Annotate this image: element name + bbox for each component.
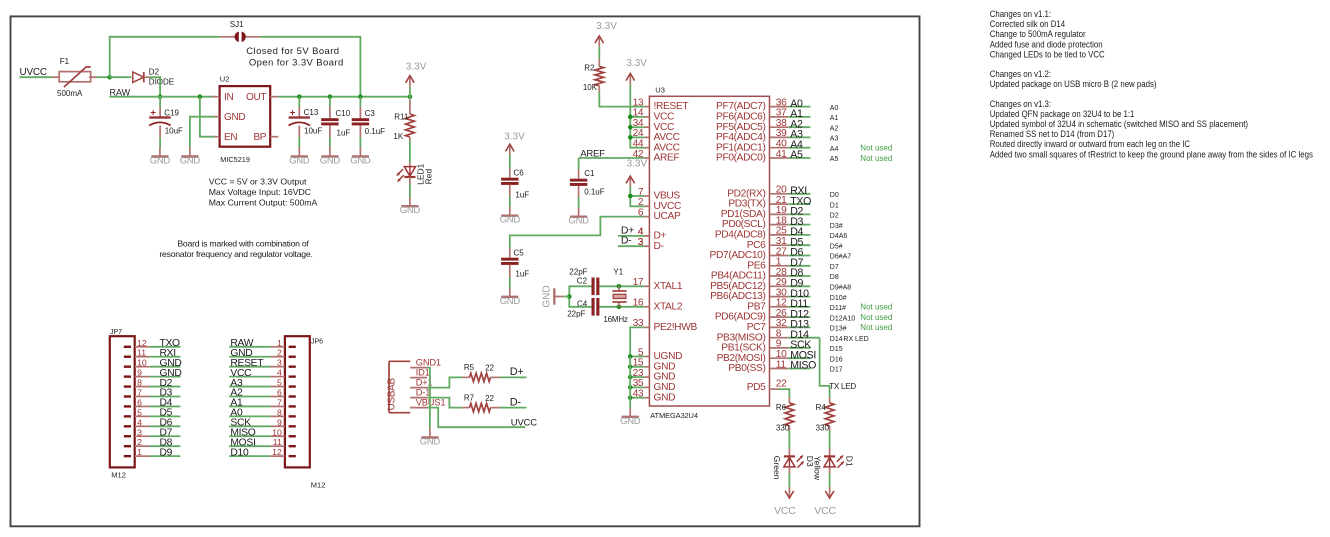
wire <box>509 155 511 168</box>
U3 pin 30 PB6(ADC13) net D10 <box>710 287 847 302</box>
svg-text:22pF: 22pF <box>567 310 585 319</box>
svg-text:VCC: VCC <box>774 505 796 517</box>
capacitor C1 <box>570 179 587 186</box>
svg-text:D10: D10 <box>230 447 249 458</box>
JP6 pin 8 A0 <box>229 407 296 418</box>
wire <box>829 431 831 449</box>
label R6 <box>776 403 787 412</box>
svg-text:7: 7 <box>137 388 142 398</box>
svg-text:D-: D- <box>621 235 632 247</box>
svg-text:Y1: Y1 <box>613 268 623 277</box>
pin stub <box>462 376 469 378</box>
connector JP7 <box>110 329 135 480</box>
resistor R11 <box>406 114 415 137</box>
crystal Y1 <box>603 268 628 325</box>
pin stub <box>329 125 331 137</box>
label 10uF <box>165 127 183 136</box>
label 0.1uF <box>365 127 386 136</box>
svg-text:GND: GND <box>224 112 245 123</box>
wire <box>329 137 331 147</box>
junction <box>358 94 363 99</box>
pin stub <box>159 126 161 138</box>
svg-text:+: + <box>290 107 296 118</box>
junction <box>628 194 633 199</box>
svg-text:330: 330 <box>816 423 830 432</box>
svg-text:D9#A8: D9#A8 <box>830 285 852 292</box>
pin stub <box>578 186 580 197</box>
wire <box>630 366 644 368</box>
U3 pin 40 PF1(ADC1) net A4 <box>716 139 892 154</box>
junction <box>628 135 633 140</box>
svg-text:AREF: AREF <box>654 153 680 164</box>
label 0.1uF <box>584 187 605 196</box>
svg-text:5: 5 <box>277 378 282 388</box>
svg-text:R11: R11 <box>394 113 409 122</box>
svg-text:330: 330 <box>776 423 790 432</box>
ground <box>568 208 589 227</box>
JP6 pin 12 D10 <box>229 447 296 458</box>
svg-text:PD5: PD5 <box>747 382 766 393</box>
label 1uF <box>515 191 529 200</box>
svg-text:11: 11 <box>273 437 282 447</box>
U3 pin 27 PD7(ADC10) net D6 <box>710 246 852 261</box>
U3 pin 2 UVCC <box>638 197 681 212</box>
svg-text:9: 9 <box>137 368 142 378</box>
svg-text:D0: D0 <box>830 192 839 199</box>
svg-text:ATMEGA32U4: ATMEGA32U4 <box>650 411 698 420</box>
resistor R6 <box>785 403 794 426</box>
svg-text:D10#: D10# <box>830 295 847 302</box>
svg-text:Red: Red <box>424 169 434 185</box>
U3 pin 25 PD4(ADC8) net D4 <box>715 226 848 241</box>
label R5 <box>464 363 475 372</box>
wire <box>779 389 789 397</box>
svg-text:2: 2 <box>137 437 142 447</box>
net label D- <box>510 396 522 408</box>
USB pin VBUS1 <box>410 398 445 408</box>
wire <box>829 474 831 489</box>
pin stub <box>578 170 580 179</box>
svg-text:Closed for 5V Board: Closed for 5V Board <box>246 46 339 57</box>
label C1 <box>584 169 595 178</box>
label R11 <box>394 113 409 122</box>
net label UVCC <box>511 416 537 427</box>
svg-text:GND: GND <box>541 285 552 307</box>
svg-text:D4A6: D4A6 <box>830 233 848 240</box>
svg-text:D1: D1 <box>845 456 855 467</box>
solder jumper SJ1 <box>220 20 259 42</box>
svg-text:Not used: Not used <box>860 144 892 153</box>
net label RAW <box>110 87 131 97</box>
svg-text:16MHz: 16MHz <box>603 315 628 324</box>
svg-text:GND: GND <box>500 215 521 226</box>
net label D+ <box>510 366 524 378</box>
ground <box>420 428 441 447</box>
svg-text:GND1: GND1 <box>416 358 441 368</box>
pin stub <box>462 407 469 409</box>
U3 pin 7 VBUS <box>638 187 680 202</box>
capacitor C6 <box>501 178 518 185</box>
pin stub U2.EN <box>212 136 220 138</box>
label R7 <box>464 393 475 402</box>
svg-text:3.3V: 3.3V <box>627 158 648 169</box>
capacitor C13 <box>289 107 310 125</box>
label 1uF <box>337 128 351 137</box>
JP7 pin 6 D4 <box>124 397 181 408</box>
svg-text:8: 8 <box>277 407 282 417</box>
svg-text:C13: C13 <box>304 108 319 117</box>
junction <box>628 115 633 120</box>
U3 pin 22 PD5 <box>747 378 787 392</box>
svg-text:1uF: 1uF <box>337 128 351 137</box>
svg-text:A4: A4 <box>830 146 839 153</box>
pin stub <box>409 100 411 114</box>
wire <box>788 431 790 449</box>
pin stub U2.GND <box>212 116 220 118</box>
svg-text:D11#: D11# <box>830 305 846 312</box>
svg-text:A1: A1 <box>830 115 839 122</box>
USB pin D-1 <box>410 388 430 398</box>
U3 pin 13 !RESET <box>633 97 689 112</box>
svg-text:Max Current Output: 500mA: Max Current Output: 500mA <box>209 198 318 208</box>
U3 pin 1 PE6 net D7 <box>747 257 839 272</box>
svg-text:UVCC: UVCC <box>511 416 537 427</box>
svg-text:Board is marked with combinati: Board is marked with combination of <box>177 238 309 248</box>
svg-text:SJ1: SJ1 <box>230 20 244 29</box>
label 22 <box>485 394 494 403</box>
svg-text:GND: GND <box>350 155 371 166</box>
wire <box>630 116 644 118</box>
svg-text:R4: R4 <box>816 403 827 412</box>
U3 pin 23 GND <box>633 368 676 383</box>
svg-text:MIC5219: MIC5219 <box>220 155 250 164</box>
wire <box>409 87 411 100</box>
svg-text:TX LED: TX LED <box>829 382 856 391</box>
svg-text:10: 10 <box>272 427 282 437</box>
wire <box>427 408 525 428</box>
svg-text:DIODE: DIODE <box>149 77 174 86</box>
label 10uF <box>304 127 322 136</box>
wire <box>569 286 591 307</box>
JP7 pin 1 D9 <box>124 447 181 458</box>
note regulator <box>209 177 318 208</box>
wire <box>110 37 221 77</box>
capacitor C10 <box>321 118 338 125</box>
svg-text:22pF: 22pF <box>569 267 587 276</box>
pin stub <box>509 169 511 178</box>
net label AREF <box>580 148 605 159</box>
wire <box>500 407 527 409</box>
svg-text:D-: D- <box>654 241 664 252</box>
svg-text:10uF: 10uF <box>165 127 183 136</box>
svg-text:USBAB: USBAB <box>386 377 397 410</box>
USB pin D+1 <box>410 378 432 388</box>
JP6 pin 7 A1 <box>229 397 296 408</box>
svg-text:A0: A0 <box>830 105 839 112</box>
svg-text:6: 6 <box>137 397 142 407</box>
JP6 pin 9 SCK <box>229 417 296 428</box>
svg-text:A5: A5 <box>830 156 839 163</box>
svg-text:MISO: MISO <box>790 360 816 372</box>
svg-text:D2: D2 <box>830 213 839 220</box>
wire <box>618 245 644 247</box>
svg-text:D6#A7: D6#A7 <box>830 254 852 261</box>
pin stub <box>491 376 500 378</box>
wire <box>563 296 569 298</box>
pin stub <box>359 125 361 137</box>
label C3 <box>365 109 376 118</box>
note closed for 5V <box>246 46 339 57</box>
pin stub <box>359 107 361 118</box>
svg-text:R5: R5 <box>464 363 475 372</box>
ground (rotated) <box>541 285 563 307</box>
svg-text:GND: GND <box>400 205 421 216</box>
pin stub <box>298 126 300 138</box>
pin stub <box>144 76 150 78</box>
power 3.3V <box>595 21 617 47</box>
svg-text:Added two small squares of tRe: Added two small squares of tRestrict to … <box>990 149 1314 159</box>
USB connector USBAB body <box>386 361 410 412</box>
svg-text:Changes on v1.3:: Changes on v1.3: <box>990 99 1051 109</box>
wire <box>630 84 644 147</box>
U3 pin 42 AREF <box>633 149 680 164</box>
wire <box>500 376 527 378</box>
svg-text:Not used: Not used <box>860 154 892 163</box>
wire <box>630 327 644 356</box>
svg-text:12: 12 <box>272 447 282 457</box>
svg-text:Not used: Not used <box>860 303 892 312</box>
JP7 pin 9 GND <box>124 368 182 379</box>
label 330 <box>776 423 790 432</box>
ground <box>150 147 171 166</box>
U3 pin 24 AVCC <box>633 128 680 143</box>
U3 pin 43 GND <box>633 389 676 404</box>
svg-text:Open for 3.3V Board: Open for 3.3V Board <box>249 57 344 68</box>
junction <box>328 94 333 99</box>
svg-text:2: 2 <box>277 348 282 358</box>
svg-text:D17: D17 <box>830 367 843 374</box>
svg-text:3: 3 <box>137 427 142 437</box>
JP6 pin 6 A2 <box>229 388 296 399</box>
label 22 <box>485 364 494 373</box>
wire <box>278 96 410 98</box>
junction <box>567 294 572 299</box>
svg-text:4: 4 <box>277 368 282 378</box>
pin stub <box>409 163 411 167</box>
svg-text:Routed directly inward or outw: Routed directly inward or outward from e… <box>990 139 1191 149</box>
label C6 <box>514 168 525 177</box>
svg-text:Updated package on USB micro B: Updated package on USB micro B (2 new pa… <box>990 79 1157 89</box>
U3 pin 17 XTAL1 <box>633 277 683 292</box>
svg-text:A2: A2 <box>830 125 839 132</box>
svg-text:D2: D2 <box>149 67 160 76</box>
svg-text:10K: 10K <box>583 83 598 92</box>
pin stub <box>491 407 500 409</box>
ground <box>289 147 310 166</box>
svg-text:C19: C19 <box>164 108 179 117</box>
junction <box>408 94 413 99</box>
svg-text:GND: GND <box>420 437 441 448</box>
power 3.3V <box>406 62 427 87</box>
JP6 pin 10 MISO <box>229 427 296 438</box>
svg-text:D14: D14 <box>830 336 843 343</box>
svg-text:22: 22 <box>485 394 494 403</box>
wire <box>630 356 644 358</box>
svg-text:Updated symbol of 32U4 in sche: Updated symbol of 32U4 in schematic (swi… <box>990 119 1248 129</box>
U3 pin 44 AVCC <box>633 139 680 154</box>
U3 pin 36 PF7(ADC7) net A0 <box>716 97 838 112</box>
ground <box>320 147 341 166</box>
JP6 pin 11 MOSI <box>229 437 296 448</box>
svg-text:6: 6 <box>277 388 282 398</box>
wire <box>359 97 361 107</box>
svg-text:22: 22 <box>776 378 787 389</box>
U3 pin 19 PD1(SDA) net D2 <box>721 205 839 220</box>
svg-text:11: 11 <box>776 359 787 370</box>
JP6 pin 1 RAW <box>229 338 296 349</box>
svg-text:PE2!HWB: PE2!HWB <box>654 322 698 333</box>
svg-text:VCC = 5V or 3.3V Output: VCC = 5V or 3.3V Output <box>209 177 307 187</box>
svg-text:PF0(ADC0): PF0(ADC0) <box>716 153 766 164</box>
U3 pin 6 UCAP <box>638 207 681 222</box>
svg-text:11: 11 <box>137 348 146 358</box>
fuse F1 <box>57 57 91 98</box>
svg-text:M12: M12 <box>111 471 126 480</box>
pin stub <box>329 107 331 118</box>
U3 pin 15 GND <box>633 358 676 373</box>
svg-text:D-1: D-1 <box>416 388 430 398</box>
svg-text:Changes on v1.2:: Changes on v1.2: <box>990 69 1051 79</box>
U3 pin 21 PD3(TX) net TXO <box>728 195 839 210</box>
power 3.3V <box>504 132 525 156</box>
pin stub <box>788 467 790 474</box>
U3 pin 29 PB5(ADC12) net D9 <box>710 277 851 292</box>
JP7 pin 10 GND <box>124 358 182 369</box>
svg-text:U3: U3 <box>655 85 665 94</box>
junction <box>617 305 622 310</box>
svg-text:D13#: D13# <box>830 326 847 333</box>
JP6 pin 4 VCC <box>229 368 296 379</box>
ground <box>500 207 521 226</box>
svg-text:GND: GND <box>320 155 341 166</box>
capacitor C19 <box>149 107 170 125</box>
power VCC <box>814 487 836 517</box>
svg-text:A3: A3 <box>830 136 839 143</box>
net label D- <box>621 235 644 248</box>
svg-text:1: 1 <box>137 447 142 457</box>
pin stub U2.IN <box>212 96 220 98</box>
svg-text:Not used: Not used <box>860 323 892 332</box>
JP7 pin 8 D2 <box>124 378 181 389</box>
wire <box>578 158 580 170</box>
label R4 <box>816 403 827 412</box>
svg-text:D8: D8 <box>830 274 839 281</box>
IC U3 ATMEGA32U4 body <box>649 85 769 420</box>
junction <box>628 125 633 130</box>
svg-text:RX LED: RX LED <box>843 336 868 343</box>
wire <box>630 186 644 206</box>
JP7 pin 2 D8 <box>124 437 181 448</box>
pin stub <box>829 397 831 403</box>
label C10 <box>336 109 351 118</box>
JP7 pin 4 D6 <box>124 417 181 428</box>
wire <box>20 76 52 78</box>
capacitor C3 <box>352 118 369 125</box>
wire <box>630 386 644 388</box>
svg-text:D7: D7 <box>830 264 839 271</box>
svg-text:D9: D9 <box>160 447 173 458</box>
USB pin GND1 <box>410 358 441 368</box>
wire <box>630 136 644 138</box>
label 1uF <box>515 269 529 278</box>
pin stub <box>829 467 831 474</box>
wire <box>578 197 580 207</box>
svg-text:500mA: 500mA <box>57 89 83 98</box>
U3 pin 11 PB0(SS) net MISO <box>728 359 842 374</box>
junction <box>628 395 633 400</box>
U3 pin 39 PF4(ADC4) net A3 <box>716 128 838 143</box>
svg-text:PB0(SS): PB0(SS) <box>728 363 765 374</box>
note open for 3.3V <box>249 57 344 68</box>
ground <box>350 147 371 166</box>
svg-text:UCAP: UCAP <box>654 211 681 222</box>
wire <box>630 126 644 128</box>
label 10K <box>583 83 598 92</box>
svg-text:3: 3 <box>277 358 282 368</box>
U3 pin 35 GND <box>633 378 676 393</box>
label C13 <box>304 108 319 117</box>
ground <box>180 147 201 166</box>
svg-text:R2: R2 <box>584 64 595 73</box>
LED D1 Yellow <box>812 455 854 481</box>
svg-text:JP6: JP6 <box>311 339 323 346</box>
junction <box>628 354 633 359</box>
label 1K <box>393 132 403 141</box>
U3 pin 38 PF5(ADC5) net A2 <box>716 118 838 133</box>
svg-text:D12A10: D12A10 <box>830 315 855 322</box>
pin stub <box>298 107 300 117</box>
pin stub <box>159 107 161 117</box>
U3 pin 26 PD6(ADC9) net D12 <box>715 308 892 323</box>
svg-text:GND: GND <box>620 416 641 427</box>
JP7 pin 3 D7 <box>124 427 181 438</box>
USB pin JD1 <box>410 368 429 378</box>
U3 pin 34 VCC <box>633 118 674 133</box>
wire <box>599 306 644 308</box>
U3 pin 9 PB1(SCK) net SCK <box>721 339 842 354</box>
capacitor C2 <box>569 267 599 295</box>
wire <box>260 37 361 97</box>
svg-text:+: + <box>150 107 156 118</box>
svg-text:C6: C6 <box>514 168 525 177</box>
svg-text:C5: C5 <box>514 249 525 258</box>
svg-text:A5: A5 <box>790 149 803 161</box>
wire <box>200 97 215 137</box>
pin stub <box>788 397 790 403</box>
wire <box>409 141 411 163</box>
resistor R7 <box>470 403 491 411</box>
svg-text:10: 10 <box>137 358 147 368</box>
svg-text:1: 1 <box>277 338 282 348</box>
wire <box>630 195 644 197</box>
wire <box>599 92 644 107</box>
svg-text:GND: GND <box>289 155 310 166</box>
U3 pin 10 PB2(MOSI) net MOSI <box>717 349 843 364</box>
svg-text:BP: BP <box>253 132 266 143</box>
svg-text:D5#: D5# <box>830 243 843 250</box>
pin stub <box>598 86 600 92</box>
U3 pin 18 PD0(SCL) net D3 <box>722 215 843 230</box>
